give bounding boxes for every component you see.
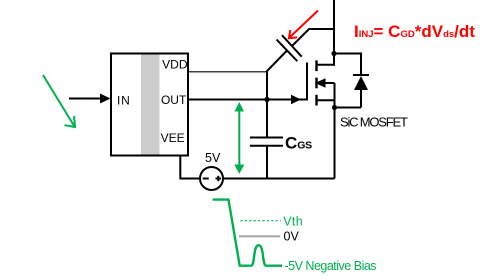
MOSFET Q1 body arrow lead (319, 82, 335, 84)
svg-text:5V: 5V (205, 151, 221, 165)
waveform: gate drive trace (213, 200, 282, 266)
svg-text:VDD: VDD (162, 57, 188, 71)
body diode D1 (353, 74, 369, 76)
svg-text:VEE: VEE (161, 131, 185, 145)
wire diode bottom to source node (335, 107, 362, 109)
MOSFET Q1 channel segments (315, 60, 317, 71)
wire drain node to diode (334, 54, 361, 76)
green double arrow (Vgs measure) (238, 107, 240, 167)
bottom wire 5V to source (223, 178, 335, 180)
input arrow into IN (69, 98, 104, 100)
red injection arrow (290, 11, 319, 38)
CGS top lead (266, 100, 268, 138)
minus sign (203, 178, 209, 180)
capacitor CGD (miller cap, diagonal plates) (277, 40, 298, 62)
source wire down (334, 108, 336, 179)
gate node junction dot (264, 97, 269, 102)
svg-text:OUT: OUT (161, 93, 187, 107)
svg-text:SiC MOSFET: SiC MOSFET (340, 115, 408, 130)
wire CGD to drain (292, 29, 334, 46)
plus sign (216, 178, 222, 180)
VDD wire to CGD branch (188, 71, 267, 73)
svg-text:IN: IN (117, 94, 131, 108)
green input signal arrow (43, 75, 75, 127)
gate wire with arrow into MOSFET gate (267, 99, 306, 101)
drain node dot (331, 51, 336, 56)
wire gate node up to CGD (267, 51, 287, 100)
gate driver U1 box (111, 54, 188, 156)
capacitor CGS plates (250, 137, 283, 139)
MOSFET Q1 gate bar (306, 63, 308, 101)
svg-text:CGS: CGS (285, 134, 312, 153)
svg-text:-5V Negative Bias: -5V Negative Bias (285, 259, 377, 273)
svg-text:0V: 0V (284, 229, 300, 243)
source node dot (332, 105, 337, 110)
Vth dashed line (240, 220, 281, 222)
MOSFET Q1 drain lead (317, 54, 334, 65)
5V source V1 circle (200, 167, 223, 190)
VEE wire down from driver (180, 156, 199, 179)
gate driver internal gray stripe (141, 55, 160, 155)
wire OUT to gate node (188, 99, 267, 101)
CGS bottom lead (266, 146, 268, 179)
0V gray line (239, 235, 280, 237)
svg-text:Vth: Vth (283, 214, 303, 228)
drain wire from top (333, 0, 335, 66)
svg-text:IINJ= CGD*dVds/dt: IINJ= CGD*dVds/dt (354, 22, 475, 41)
MOSFET Q1 source lead (317, 99, 335, 101)
